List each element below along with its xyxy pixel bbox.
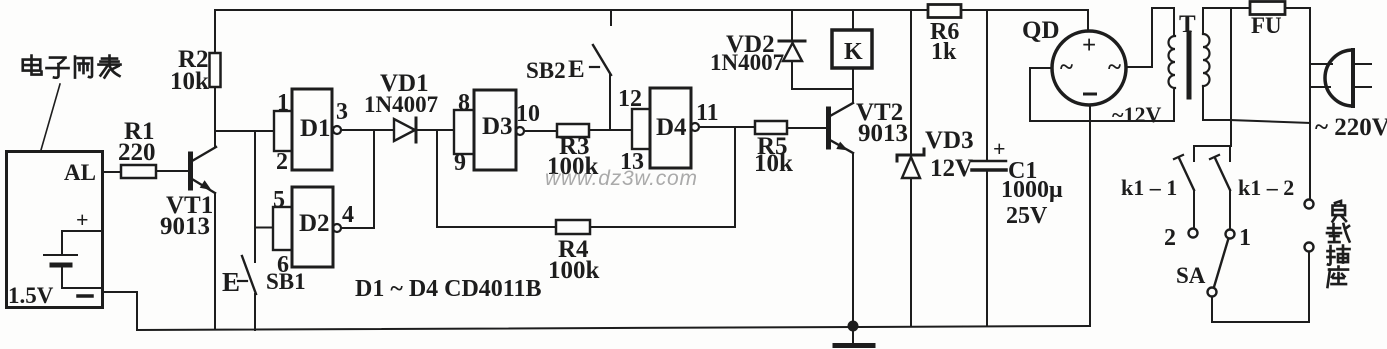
svg-text:2: 2 xyxy=(1164,225,1176,251)
svg-text:6: 6 xyxy=(277,252,289,278)
svg-text:9013: 9013 xyxy=(160,213,210,240)
svg-text:SA: SA xyxy=(1176,263,1206,288)
svg-text:1k: 1k xyxy=(931,39,957,65)
svg-text:D4: D4 xyxy=(656,114,687,141)
svg-text:D3: D3 xyxy=(482,113,513,140)
svg-text:12: 12 xyxy=(618,86,642,112)
svg-text:3: 3 xyxy=(336,99,348,125)
svg-text:1: 1 xyxy=(277,90,289,116)
svg-text:D2: D2 xyxy=(299,210,330,237)
svg-text:5: 5 xyxy=(273,187,285,213)
svg-text:D1: D1 xyxy=(300,115,331,142)
svg-text:1.5V: 1.5V xyxy=(8,283,54,308)
svg-text:1N4007: 1N4007 xyxy=(710,50,784,75)
svg-text:+: + xyxy=(993,136,1006,161)
svg-text:FU: FU xyxy=(1251,13,1282,38)
svg-text:~12V: ~12V xyxy=(1112,102,1161,127)
svg-text:25V: 25V xyxy=(1006,203,1048,229)
svg-text:8: 8 xyxy=(458,90,470,116)
svg-text:9: 9 xyxy=(454,150,466,176)
svg-text:10k: 10k xyxy=(170,68,209,95)
svg-text:E: E xyxy=(568,56,585,83)
svg-text:~: ~ xyxy=(1060,54,1073,81)
svg-text:12V: 12V xyxy=(930,155,973,182)
svg-text:1N4007: 1N4007 xyxy=(364,92,438,117)
svg-text:T: T xyxy=(1179,11,1196,38)
svg-text:10: 10 xyxy=(516,101,540,127)
svg-text:1: 1 xyxy=(1239,225,1251,251)
svg-text:D1 ~ D4 CD4011B: D1 ~ D4 CD4011B xyxy=(355,276,542,302)
svg-text:100k: 100k xyxy=(548,257,600,284)
svg-text:220: 220 xyxy=(118,139,156,166)
svg-text:K: K xyxy=(844,39,863,65)
svg-text:VD3: VD3 xyxy=(925,127,974,154)
svg-text:+: + xyxy=(76,207,89,232)
svg-text:10k: 10k xyxy=(754,150,793,177)
svg-text:+: + xyxy=(1082,32,1096,59)
svg-text:~ 220V: ~ 220V xyxy=(1315,114,1387,141)
svg-text:k1 – 1: k1 – 1 xyxy=(1121,175,1177,200)
svg-text:AL: AL xyxy=(64,160,96,185)
svg-text:SB2: SB2 xyxy=(526,58,566,83)
svg-text:QD: QD xyxy=(1022,17,1060,44)
svg-text:4: 4 xyxy=(342,202,354,228)
svg-text:k1 – 2: k1 – 2 xyxy=(1238,175,1294,200)
svg-text:~: ~ xyxy=(1108,54,1121,81)
svg-text:www.dz3w.com: www.dz3w.com xyxy=(545,167,697,190)
svg-text:E: E xyxy=(222,267,240,297)
svg-text:11: 11 xyxy=(696,100,719,126)
svg-text:9013: 9013 xyxy=(858,120,908,147)
svg-text:2: 2 xyxy=(276,149,288,175)
svg-text:1000μ: 1000μ xyxy=(1001,177,1063,203)
